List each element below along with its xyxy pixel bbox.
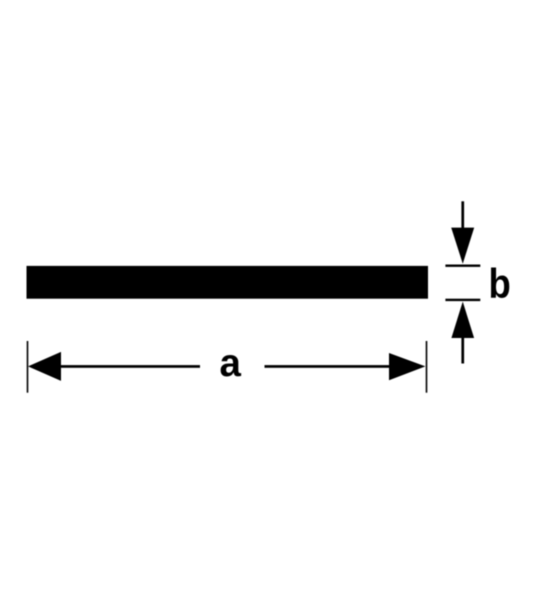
wire: b bottom arrow shaft: [461, 337, 464, 364]
b top arrowhead: [451, 228, 474, 264]
b bottom tick: [445, 299, 480, 301]
wire: a dimension line right segment: [265, 365, 391, 368]
wire: b top arrow shaft: [461, 201, 464, 228]
b top tick: [445, 265, 480, 267]
svg-text:b: b: [489, 262, 511, 308]
a left arrowhead: [28, 352, 61, 381]
node: left extension line: [27, 341, 29, 393]
svg-text:a: a: [220, 342, 242, 385]
wire: a dimension line left segment: [59, 365, 200, 368]
b bottom arrowhead: [451, 302, 474, 338]
flat bar profile: [27, 266, 429, 299]
a right arrowhead: [389, 353, 425, 380]
node: right extension line: [426, 341, 428, 393]
